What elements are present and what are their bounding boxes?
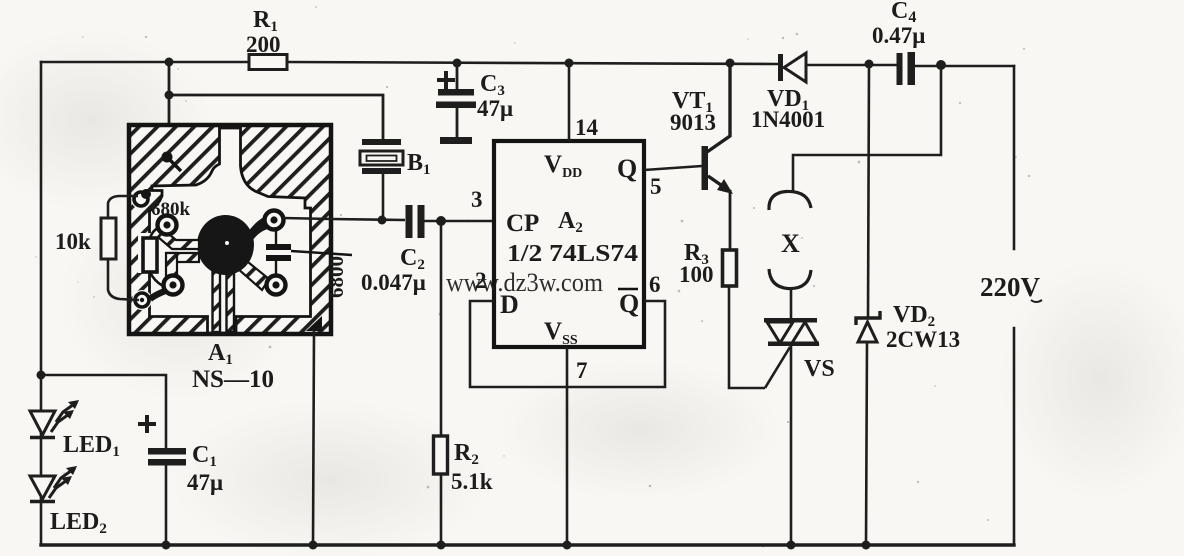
resistor R2	[434, 221, 493, 550]
chip blob	[197, 215, 254, 275]
node B1 branch junction	[165, 91, 174, 100]
wire LED-C1 top link	[41, 375, 166, 448]
wire D to Qbar loop	[470, 301, 665, 387]
sensor module A1 NS-10	[129, 125, 352, 393]
node junction 866,545	[862, 541, 871, 550]
wire bottom rail	[41, 543, 1014, 546]
node junction 166,545	[162, 541, 171, 550]
node junction 791,545	[787, 541, 796, 550]
wire top rail	[41, 62, 1014, 66]
svg-text:NS—10: NS—10	[192, 366, 274, 393]
pad top-left	[158, 216, 177, 235]
label 220V	[980, 272, 1042, 302]
svg-text:680k: 680k	[151, 199, 191, 220]
capacitor C1	[138, 415, 223, 550]
pin 14 VDD wire	[565, 59, 574, 68]
LED1	[30, 400, 120, 460]
internal capacitor	[266, 244, 291, 250]
module inner white region	[150, 128, 311, 333]
svg-text:2CW13: 2CW13	[886, 327, 960, 352]
svg-text:6: 6	[649, 272, 661, 297]
svg-text:X: X	[781, 229, 800, 258]
wire left edge	[40, 62, 43, 545]
svg-text:6800: 6800	[324, 256, 348, 298]
svg-text:47μ: 47μ	[187, 470, 223, 495]
lamp X	[769, 191, 811, 319]
svg-text:1/2 74LS74: 1/2 74LS74	[507, 241, 638, 267]
svg-text:B1: B1	[407, 150, 431, 178]
trace top-left band	[158, 230, 199, 249]
svg-text:R1: R1	[253, 7, 278, 35]
node junction 730,63	[726, 59, 735, 68]
svg-text:CP: CP	[506, 210, 539, 237]
capacitor C4	[865, 0, 947, 85]
node junction 941,65	[936, 60, 946, 70]
pad top-right	[265, 211, 284, 230]
node A top-rail junction x169	[165, 58, 174, 67]
pad left-edge upper	[134, 192, 148, 206]
triac VS	[764, 318, 835, 550]
svg-text:0.47μ: 0.47μ	[872, 23, 925, 48]
module border	[129, 125, 331, 334]
pad left-edge lower	[135, 293, 149, 307]
node junction 567,545	[563, 541, 572, 550]
transistor Q1 VT1 9013	[670, 59, 735, 251]
svg-text:www.dz3w.com: www.dz3w.com	[446, 268, 603, 297]
svg-text:1N4001: 1N4001	[751, 107, 825, 132]
wire module bottom to rail	[313, 330, 314, 545]
capacitor C3	[436, 59, 513, 145]
trace twin bottom strips	[213, 272, 221, 332]
node junction 441,545	[437, 541, 446, 550]
svg-text:200: 200	[246, 32, 281, 57]
svg-text:VD2: VD2	[893, 302, 935, 330]
svg-text:R2: R2	[454, 440, 479, 468]
pin 5 Q wire	[644, 166, 702, 170]
diode VD1 1N4001	[751, 53, 825, 132]
svg-text:10k: 10k	[55, 229, 91, 254]
wire C4 node down-left to lamp	[793, 65, 941, 193]
svg-text:3: 3	[471, 187, 483, 212]
wire module output y219	[283, 218, 405, 220]
svg-text:7: 7	[576, 358, 588, 383]
trace to bottom-right pad	[237, 258, 269, 290]
svg-text:VS: VS	[804, 356, 835, 382]
wire right edge top segment	[1013, 66, 1016, 249]
pad bottom-right	[267, 276, 286, 295]
trace to top-right pad	[248, 217, 272, 240]
svg-text:100: 100	[679, 262, 714, 287]
svg-text:C2: C2	[400, 245, 425, 273]
svg-text:5: 5	[650, 174, 662, 199]
node C2/R2 junction	[436, 216, 446, 226]
pin 7 VSS wire	[566, 347, 569, 545]
node junction 313,545	[309, 541, 318, 550]
node junction 457,63	[453, 59, 462, 68]
trace hook to edge pad	[150, 291, 165, 299]
resistor 10k	[55, 196, 139, 300]
pad bottom-right corner	[306, 316, 322, 331]
svg-text:C3: C3	[480, 71, 505, 99]
node B1/C2 junction	[378, 216, 387, 225]
svg-text:14: 14	[575, 115, 599, 140]
svg-text:220V: 220V	[980, 272, 1041, 302]
trace vertical band	[166, 253, 177, 288]
node LED branch	[37, 371, 46, 380]
zener VD2 2CW13	[856, 302, 960, 550]
internal resistor rect	[143, 238, 157, 272]
svg-text:47μ: 47μ	[477, 96, 513, 121]
node junction 869,64	[865, 60, 874, 69]
svg-text:Q: Q	[617, 154, 637, 183]
capacitor C2	[361, 205, 494, 295]
svg-text:Q: Q	[619, 289, 639, 318]
resonator B1	[360, 139, 431, 220]
svg-text:9013: 9013	[670, 110, 716, 135]
wire module feed vertical	[168, 62, 171, 160]
wire to B1 top	[169, 95, 383, 140]
pad bottom-left	[164, 276, 183, 295]
svg-text:LED2: LED2	[50, 509, 107, 537]
trace lower horizontal band	[167, 253, 199, 262]
wire right edge bottom segment	[1013, 328, 1016, 545]
pad feed dot	[162, 152, 173, 163]
svg-text:5.1k: 5.1k	[451, 469, 493, 494]
LED2	[30, 466, 107, 537]
resistor R1	[246, 7, 287, 70]
wire VD1/C4 node down to VD2	[868, 64, 869, 318]
resistor R3	[679, 240, 765, 388]
svg-text:0.047μ: 0.047μ	[361, 270, 426, 295]
svg-text:LED1: LED1	[63, 432, 120, 460]
op-amp U1 flip-flop A2 74LS74	[494, 141, 644, 348]
